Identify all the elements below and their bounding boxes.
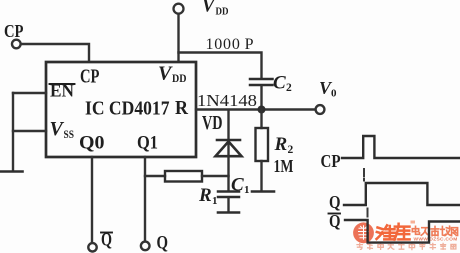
svg-text:C: C	[231, 175, 244, 196]
junction dot output node	[258, 106, 266, 114]
svg-text:V: V	[202, 0, 216, 17]
watermark logo circle	[353, 222, 374, 243]
pin label VDD	[158, 63, 187, 86]
svg-text:V: V	[50, 118, 65, 140]
pin label EN with overline	[50, 81, 75, 101]
label Qbar waveform with overline	[329, 211, 341, 231]
svg-text:VD: VD	[202, 113, 223, 134]
wire CP terminal to IC pin	[21, 44, 89, 62]
svg-text:Q0: Q0	[79, 133, 105, 154]
svg-text:R: R	[175, 97, 188, 119]
waveform CP	[342, 136, 460, 158]
wire Q1 pin to Q terminal	[144, 157, 146, 241]
label R1	[198, 185, 218, 207]
diode VD	[216, 140, 242, 156]
ground left rail	[0, 170, 23, 173]
wire C2 to output node	[260, 86, 262, 109]
svg-text:1M: 1M	[274, 156, 294, 176]
wire R2 to ground	[260, 161, 262, 191]
svg-text:2: 2	[288, 144, 294, 156]
watermark TM	[411, 221, 416, 224]
svg-text:1: 1	[244, 184, 250, 196]
svg-text:R: R	[198, 185, 212, 206]
svg-text:V: V	[158, 63, 173, 85]
ground below C1	[218, 211, 239, 214]
svg-text:DD: DD	[216, 6, 229, 18]
svg-text:IC CD4017: IC CD4017	[85, 98, 170, 120]
wire R pin to V0 terminal	[196, 108, 315, 110]
svg-text:CP: CP	[80, 67, 100, 88]
capacitor C2	[250, 79, 273, 85]
terminal V0	[316, 105, 325, 114]
IC U1 CD4017 box	[46, 62, 196, 157]
svg-text:2: 2	[286, 82, 292, 94]
capacitor C1	[218, 192, 239, 198]
wire diode to C1	[227, 157, 229, 191]
svg-text:R: R	[274, 134, 288, 155]
wire EN pin to left rail	[13, 92, 46, 94]
terminal Q	[141, 242, 150, 251]
svg-text:CP: CP	[4, 21, 24, 41]
resistor R2	[256, 128, 269, 161]
waveform Qbar	[345, 220, 460, 243]
svg-text:DD: DD	[172, 71, 187, 85]
wire VDD rail to C2	[179, 53, 262, 78]
svg-text:1000 P: 1000 P	[206, 36, 254, 53]
svg-text:SS: SS	[64, 129, 75, 141]
terminal VDD	[174, 4, 184, 14]
svg-text:0: 0	[331, 88, 337, 100]
label VDD supply	[202, 0, 229, 18]
ground below R2	[252, 190, 274, 193]
svg-text:1N4148: 1N4148	[197, 91, 257, 110]
label R2	[274, 134, 294, 156]
svg-text:Q: Q	[329, 192, 341, 212]
alignment dashed line	[364, 169, 368, 217]
wire VSS pin to left rail	[13, 130, 46, 132]
terminal Qbar	[88, 243, 96, 251]
watermark text weiku big	[377, 224, 410, 240]
resistor R1	[165, 171, 202, 182]
svg-text:Q1: Q1	[137, 133, 158, 154]
svg-text:Q: Q	[157, 234, 169, 253]
terminal CP input	[12, 40, 21, 49]
svg-text:1: 1	[212, 195, 218, 207]
wire C1 to ground	[227, 198, 229, 212]
waveform Q	[344, 183, 460, 205]
wire node to R2	[260, 110, 262, 129]
wire R1 to C1 node	[202, 175, 229, 177]
svg-text:C: C	[273, 73, 286, 94]
svg-text:CP: CP	[321, 151, 341, 171]
wire Q0 pin to Qbar terminal	[91, 157, 93, 243]
label Qbar output with overline	[101, 231, 112, 251]
pin label VSS	[50, 118, 75, 141]
wire node to diode cathode	[227, 110, 229, 139]
label C2	[273, 73, 292, 95]
watermark text dianzishichangwang	[412, 226, 457, 236]
wire VDD to IC pin	[177, 14, 179, 62]
wire Q1 branch to R1	[145, 175, 165, 177]
label C1	[231, 175, 250, 197]
watermark slogan	[357, 243, 456, 249]
svg-text:Q: Q	[101, 231, 112, 251]
wire left rail down	[12, 93, 14, 171]
label V0	[319, 78, 337, 100]
